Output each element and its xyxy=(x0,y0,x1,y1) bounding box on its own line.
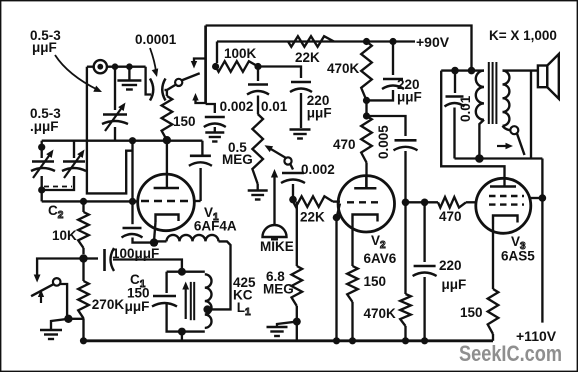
node +90 feed xyxy=(468,67,476,75)
node rail-screen xyxy=(539,194,547,202)
switch S1 pivot xyxy=(53,278,61,286)
ground (220uuF osc) xyxy=(290,128,311,130)
wire antenna row xyxy=(87,66,94,68)
svg-text:22K: 22K xyxy=(295,50,320,65)
node V1 plate junction xyxy=(163,136,171,144)
svg-text:100K: 100K xyxy=(224,46,257,61)
capacitor C1 150uuF xyxy=(153,295,176,298)
wire plate-row xyxy=(42,140,203,142)
resistor 470K (V2 plate feed) xyxy=(361,42,372,101)
svg-text:150: 150 xyxy=(460,305,483,320)
svg-text:0.002: 0.002 xyxy=(220,99,254,114)
node L1 tap xyxy=(203,305,211,313)
resistor 150 (V3 cathode) xyxy=(488,289,499,334)
speaker SP1 xyxy=(538,66,547,88)
resistor 6.8 MEG xyxy=(293,200,297,202)
svg-text:L1: L1 xyxy=(237,300,251,318)
switch contact arrow (up position) xyxy=(34,275,41,283)
node V1 cathode junction xyxy=(150,238,158,246)
resistor 150 (osc) xyxy=(162,96,173,140)
node 220-3 top xyxy=(421,199,429,207)
ground (0.5 MEG) xyxy=(257,184,259,190)
svg-text:0.01: 0.01 xyxy=(261,99,288,114)
node tank top xyxy=(178,268,186,276)
V1 cathode xyxy=(156,215,179,223)
resistor 270K xyxy=(82,262,84,281)
wire 470K-470 link xyxy=(365,100,367,116)
wire bottom return row xyxy=(455,157,543,159)
wire 6.8MEG chain xyxy=(296,202,298,266)
node 220uuF-2 top xyxy=(389,38,396,45)
node 470K bottom xyxy=(363,97,370,104)
svg-text:V2: V2 xyxy=(371,233,386,251)
node 0.005 branch xyxy=(363,112,370,119)
wire 270K to bus xyxy=(82,318,84,341)
wire V2 return to bus xyxy=(335,218,337,341)
wire right rail xyxy=(541,159,543,323)
resistor 22K (rail) xyxy=(288,36,334,47)
switch lower contact arrow xyxy=(40,297,42,303)
svg-text:0.0001: 0.0001 xyxy=(135,32,177,47)
speaker switch arrow xyxy=(497,145,507,147)
ground (0.002 osc) xyxy=(214,127,216,132)
wire 90V rail xyxy=(217,40,415,42)
tube V3 envelope xyxy=(476,178,531,233)
svg-text:+90V: +90V xyxy=(416,34,450,50)
transformer core xyxy=(488,62,490,124)
capacitor 100uuF (grid, Cx) xyxy=(131,201,133,224)
V1 grid (dashed) xyxy=(141,200,193,202)
svg-text:470: 470 xyxy=(333,137,356,152)
pot wiper terminal circle xyxy=(284,157,291,164)
wire top rail to output transformer xyxy=(206,26,472,71)
wire tank box xyxy=(165,272,167,293)
node bus-220-3 xyxy=(421,337,428,344)
resistor 100K xyxy=(216,61,258,72)
wire switch to ground node xyxy=(60,284,67,319)
node 100K left xyxy=(212,63,219,70)
wire osc top elbow xyxy=(146,67,151,95)
wire V3 cathode lead xyxy=(492,224,494,289)
capacitor 0.01 (det) xyxy=(248,83,268,86)
resistor 10K xyxy=(82,201,84,212)
svg-text:μμF: μμF xyxy=(442,277,467,292)
node bus-270K xyxy=(80,337,87,344)
capacitor 220uuF (osc) xyxy=(291,81,311,84)
wire switch feed xyxy=(37,259,83,275)
node 470K top xyxy=(363,38,370,45)
node primary bottom xyxy=(475,154,484,163)
svg-text:μμF: μμF xyxy=(32,40,57,55)
svg-text:μμF: μμF xyxy=(125,299,150,314)
node antenna line A top xyxy=(129,137,136,144)
node 0.002-22K xyxy=(289,196,297,204)
wire cap to 150 top xyxy=(166,90,168,96)
capacitor 0.01 (tone) xyxy=(454,71,456,93)
node C2 top xyxy=(38,144,45,151)
svg-text:0.002: 0.002 xyxy=(301,162,335,177)
ground (antenna) xyxy=(128,67,130,80)
capacitor 220uuF (plate bypass) xyxy=(392,42,394,76)
wire V2 cathode lead xyxy=(351,223,353,267)
wire antenna line A xyxy=(131,141,133,202)
capacitor 220uuF (V3 grid) xyxy=(423,202,425,262)
capacitor C2a trimmer xyxy=(32,160,54,162)
wire C2 to grid bus xyxy=(41,190,43,201)
node V2 return xyxy=(333,214,341,222)
node grid-lineA-Cx xyxy=(129,198,136,205)
svg-text:470: 470 xyxy=(439,209,462,224)
wire 0.01 to pot xyxy=(257,96,259,115)
svg-text:6AV6: 6AV6 xyxy=(364,251,397,266)
capacitor C2b trimmer xyxy=(63,160,85,162)
wire jack-left drop xyxy=(87,67,133,194)
C2 gang dashed link xyxy=(44,186,72,188)
svg-text:0.005: 0.005 xyxy=(376,125,391,159)
wire secondary top to speaker xyxy=(503,69,538,71)
inductor L1 primary winding xyxy=(153,241,155,242)
wire V3 screen to rail xyxy=(529,197,543,199)
svg-text:K= X 1,000: K= X 1,000 xyxy=(489,28,557,43)
node bus-470K2 xyxy=(402,337,409,344)
wire transformer top row xyxy=(441,69,484,71)
ground (switch) xyxy=(51,319,68,329)
svg-text:470K: 470K xyxy=(327,61,360,76)
node V3 grid left xyxy=(402,199,410,207)
wire wiper to 0.002-2 xyxy=(290,164,293,170)
svg-text:MEG: MEG xyxy=(222,152,253,167)
wire C2 box xyxy=(41,141,43,158)
V2 plate bar xyxy=(354,187,376,190)
svg-text:6AS5: 6AS5 xyxy=(501,249,535,264)
switch S1 blade xyxy=(31,284,53,296)
pot wiper arrow xyxy=(270,149,286,159)
svg-text:10K: 10K xyxy=(52,228,77,243)
wire 0.002-2 down xyxy=(292,184,294,200)
band switch contact circle xyxy=(167,85,176,90)
wire 100K to 220uuF xyxy=(258,67,301,79)
resistor 470 (V2 plate) xyxy=(361,116,372,163)
svg-text:MIKE: MIKE xyxy=(260,239,294,254)
wire node to 270K xyxy=(68,318,84,320)
node 100K right xyxy=(254,63,261,70)
wire V1 plate lead xyxy=(166,140,168,188)
wire 0.005 to V3 grid node xyxy=(404,151,406,202)
capacitor 0.005 xyxy=(395,139,417,142)
wire 90V rail left elbow xyxy=(216,42,218,64)
capacitor 0.002 (osc grid) xyxy=(205,116,225,119)
wire 0.005 branch xyxy=(367,116,406,136)
wire V2 return diag xyxy=(337,204,341,218)
wire 150-V2 to bus xyxy=(351,302,353,341)
capacitor 100uuF coupling (Cy) xyxy=(84,257,99,259)
V1 plate bar xyxy=(154,187,179,190)
node bus-V2ret xyxy=(333,337,340,344)
svg-text:SeekIC.com: SeekIC.com xyxy=(459,341,562,366)
speaker switch circle xyxy=(510,126,518,134)
wire ground bus xyxy=(82,339,493,342)
V2 cathode xyxy=(353,215,378,223)
svg-text:220: 220 xyxy=(439,258,462,273)
ground (6.8MEG) xyxy=(277,322,297,326)
node 22K-0.002 junction2 xyxy=(296,201,298,203)
wire plate line to transformer xyxy=(441,71,504,179)
potentiometer 0.5 MEG xyxy=(252,114,263,184)
wire V1 grid right ext xyxy=(194,200,201,202)
tube V2 envelope xyxy=(338,176,394,232)
tube V1 envelope xyxy=(138,174,195,231)
wire 220uuF down xyxy=(300,93,302,128)
wire 22K to V2 grid xyxy=(333,200,340,202)
L1 core lines xyxy=(190,282,192,320)
transformer T1 secondary xyxy=(503,71,510,126)
wire V2 plate lead xyxy=(365,163,367,189)
band switch blade xyxy=(182,73,200,80)
L1 slug arrow xyxy=(185,288,187,319)
node 10K-270K tap xyxy=(79,254,87,262)
svg-text:150: 150 xyxy=(173,114,196,129)
resistor 470K (V2 out) xyxy=(404,202,406,294)
node antenna-ground junction xyxy=(126,63,133,70)
speaker switch blade xyxy=(517,133,525,155)
wire 220uuF-2 bottom elbow xyxy=(367,90,394,100)
capacitor 0.5-3 trimmer C-ant xyxy=(114,67,116,110)
node 0.01-3 top xyxy=(451,67,459,75)
node switch-ground xyxy=(64,315,72,323)
band switch lower contact arrow xyxy=(196,101,206,104)
node C2 bottom xyxy=(38,186,45,193)
wire riser elbow to 0.002 xyxy=(206,104,215,113)
svg-text:270K: 270K xyxy=(92,297,125,312)
band switch upper contact arrow xyxy=(194,59,206,62)
node tank bottom xyxy=(178,328,186,336)
svg-text:0.01: 0.01 xyxy=(458,95,473,122)
wire speaker drop xyxy=(530,71,532,159)
microphone MIKE xyxy=(263,225,287,237)
V3 plate bar xyxy=(490,185,516,188)
node grid-10K xyxy=(80,198,87,205)
svg-text:MEG: MEG xyxy=(263,282,294,297)
transformer T1 primary xyxy=(476,71,484,120)
wire 470K-2 to bus xyxy=(404,326,406,341)
wire tank bottom to bus xyxy=(181,332,183,341)
svg-text:μμF: μμF xyxy=(307,105,332,120)
svg-text:6AF4A: 6AF4A xyxy=(194,219,237,234)
node antenna-trimmer junction xyxy=(112,63,119,70)
V3 cathode xyxy=(493,216,518,225)
svg-text:.μμF: .μμF xyxy=(30,119,59,134)
svg-text:22K: 22K xyxy=(300,210,325,225)
resistor 22K (V2 grid) xyxy=(293,196,333,207)
V2 grid (dashed) xyxy=(347,201,381,203)
wire V1 grid bus xyxy=(42,200,139,202)
antenna jack J1 xyxy=(94,60,107,73)
svg-text:C2: C2 xyxy=(48,203,64,221)
svg-text:μμF: μμF xyxy=(397,90,422,105)
capacitor 0.002 (audio coupling) xyxy=(282,172,304,175)
wire 0.01 top xyxy=(257,67,259,82)
inductor L1 secondary winding xyxy=(205,274,212,328)
node bus-150V2 xyxy=(349,337,356,344)
svg-text:150: 150 xyxy=(364,274,387,289)
wire osc rail riser xyxy=(204,26,207,105)
capacitor feedback (plate-grid) xyxy=(190,155,211,158)
resistor 150 (V2 cathode) xyxy=(347,266,358,302)
node 6.8MEG bottom xyxy=(296,306,298,341)
capacitor 0.0001 (two curved plates) xyxy=(150,79,153,101)
V3 grids (dashed) xyxy=(489,195,524,197)
svg-text:470K: 470K xyxy=(364,306,397,321)
wire 150-V3 to bus corner xyxy=(492,334,494,341)
resistor 470 (V3 grid stopper) xyxy=(406,201,439,203)
